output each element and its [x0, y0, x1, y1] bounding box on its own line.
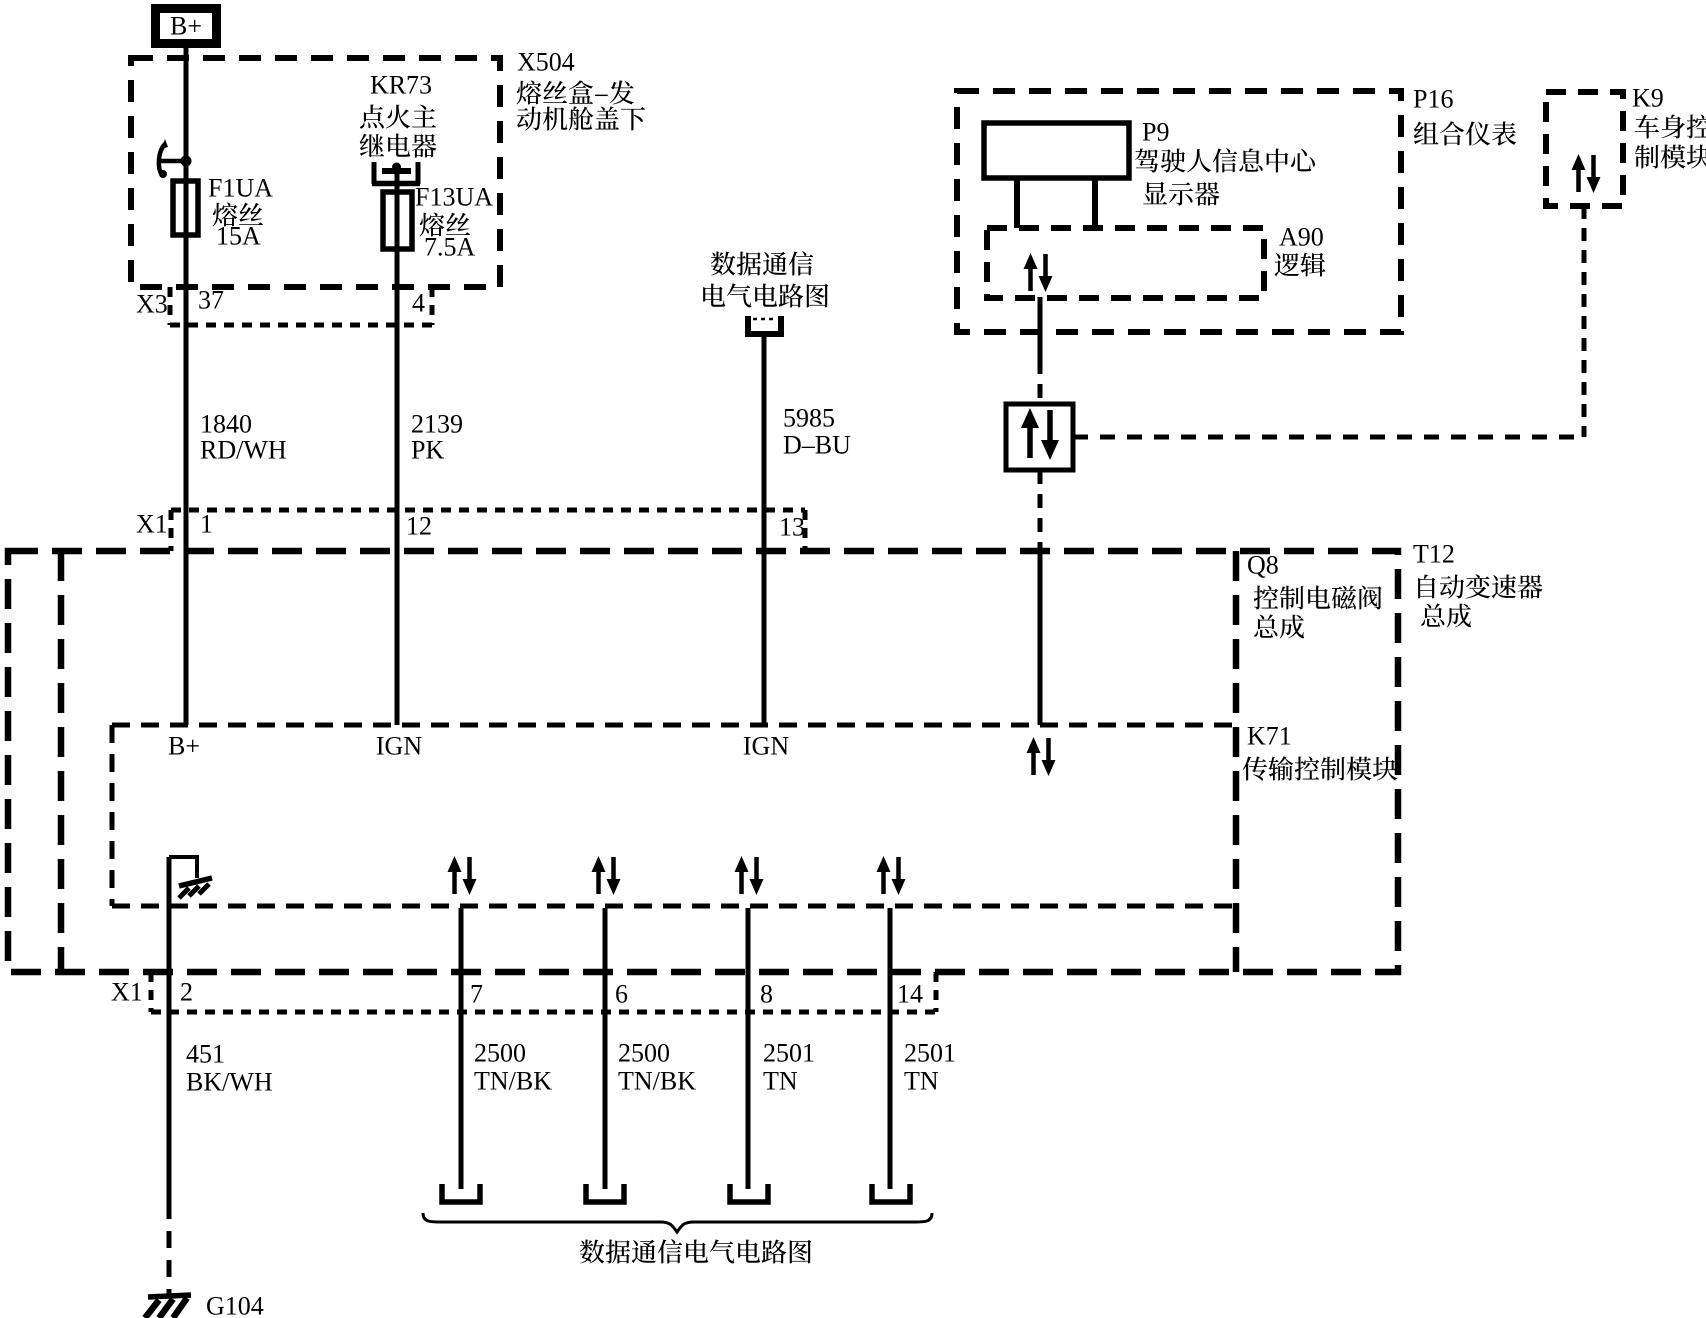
- svg-text:6: 6: [615, 980, 628, 1009]
- svg-text:Q8: Q8: [1247, 551, 1279, 580]
- svg-text:K9: K9: [1632, 84, 1664, 113]
- svg-text:2: 2: [180, 978, 193, 1007]
- svg-text:15A: 15A: [216, 222, 261, 251]
- svg-text:D–BU: D–BU: [783, 431, 851, 460]
- svg-text:1840: 1840: [200, 410, 252, 439]
- svg-text:P9: P9: [1142, 118, 1169, 147]
- svg-text:X504: X504: [517, 48, 575, 77]
- svg-text:IGN: IGN: [376, 732, 422, 761]
- svg-text:451: 451: [186, 1040, 225, 1069]
- svg-text:G104: G104: [206, 1292, 264, 1318]
- svg-text:1: 1: [200, 510, 213, 539]
- svg-text:P16: P16: [1413, 85, 1453, 114]
- svg-text:8: 8: [760, 980, 773, 1009]
- svg-text:F13UA: F13UA: [415, 183, 493, 212]
- svg-text:13: 13: [779, 513, 805, 542]
- svg-text:X1: X1: [111, 978, 143, 1007]
- svg-text:K71: K71: [1247, 722, 1292, 751]
- svg-text:RD/WH: RD/WH: [200, 436, 287, 465]
- svg-text:2501: 2501: [763, 1039, 815, 1068]
- svg-text:X3: X3: [136, 290, 168, 319]
- svg-text:2500: 2500: [474, 1039, 526, 1068]
- svg-text:B+: B+: [170, 12, 202, 41]
- svg-text:KR73: KR73: [370, 71, 432, 100]
- svg-text:X1: X1: [136, 510, 168, 539]
- svg-text:BK/WH: BK/WH: [186, 1068, 273, 1097]
- svg-text:7: 7: [470, 980, 483, 1009]
- svg-text:TN/BK: TN/BK: [618, 1067, 696, 1096]
- svg-text:A90: A90: [1279, 223, 1324, 252]
- svg-text:IGN: IGN: [743, 732, 789, 761]
- svg-text:37: 37: [198, 286, 224, 315]
- svg-text:12: 12: [406, 512, 432, 541]
- svg-text:4: 4: [412, 289, 425, 318]
- svg-text:F1UA: F1UA: [208, 174, 273, 203]
- svg-text:7.5A: 7.5A: [424, 233, 476, 262]
- svg-text:14: 14: [897, 980, 923, 1009]
- svg-text:2139: 2139: [411, 410, 463, 439]
- svg-text:T12: T12: [1413, 540, 1455, 569]
- svg-text:TN: TN: [763, 1067, 798, 1096]
- svg-text:2500: 2500: [618, 1039, 670, 1068]
- svg-text:B+: B+: [168, 732, 200, 761]
- svg-text:2501: 2501: [904, 1039, 956, 1068]
- svg-text:PK: PK: [411, 436, 444, 465]
- svg-text:TN: TN: [904, 1067, 939, 1096]
- svg-text:TN/BK: TN/BK: [474, 1067, 552, 1096]
- svg-text:5985: 5985: [783, 404, 835, 433]
